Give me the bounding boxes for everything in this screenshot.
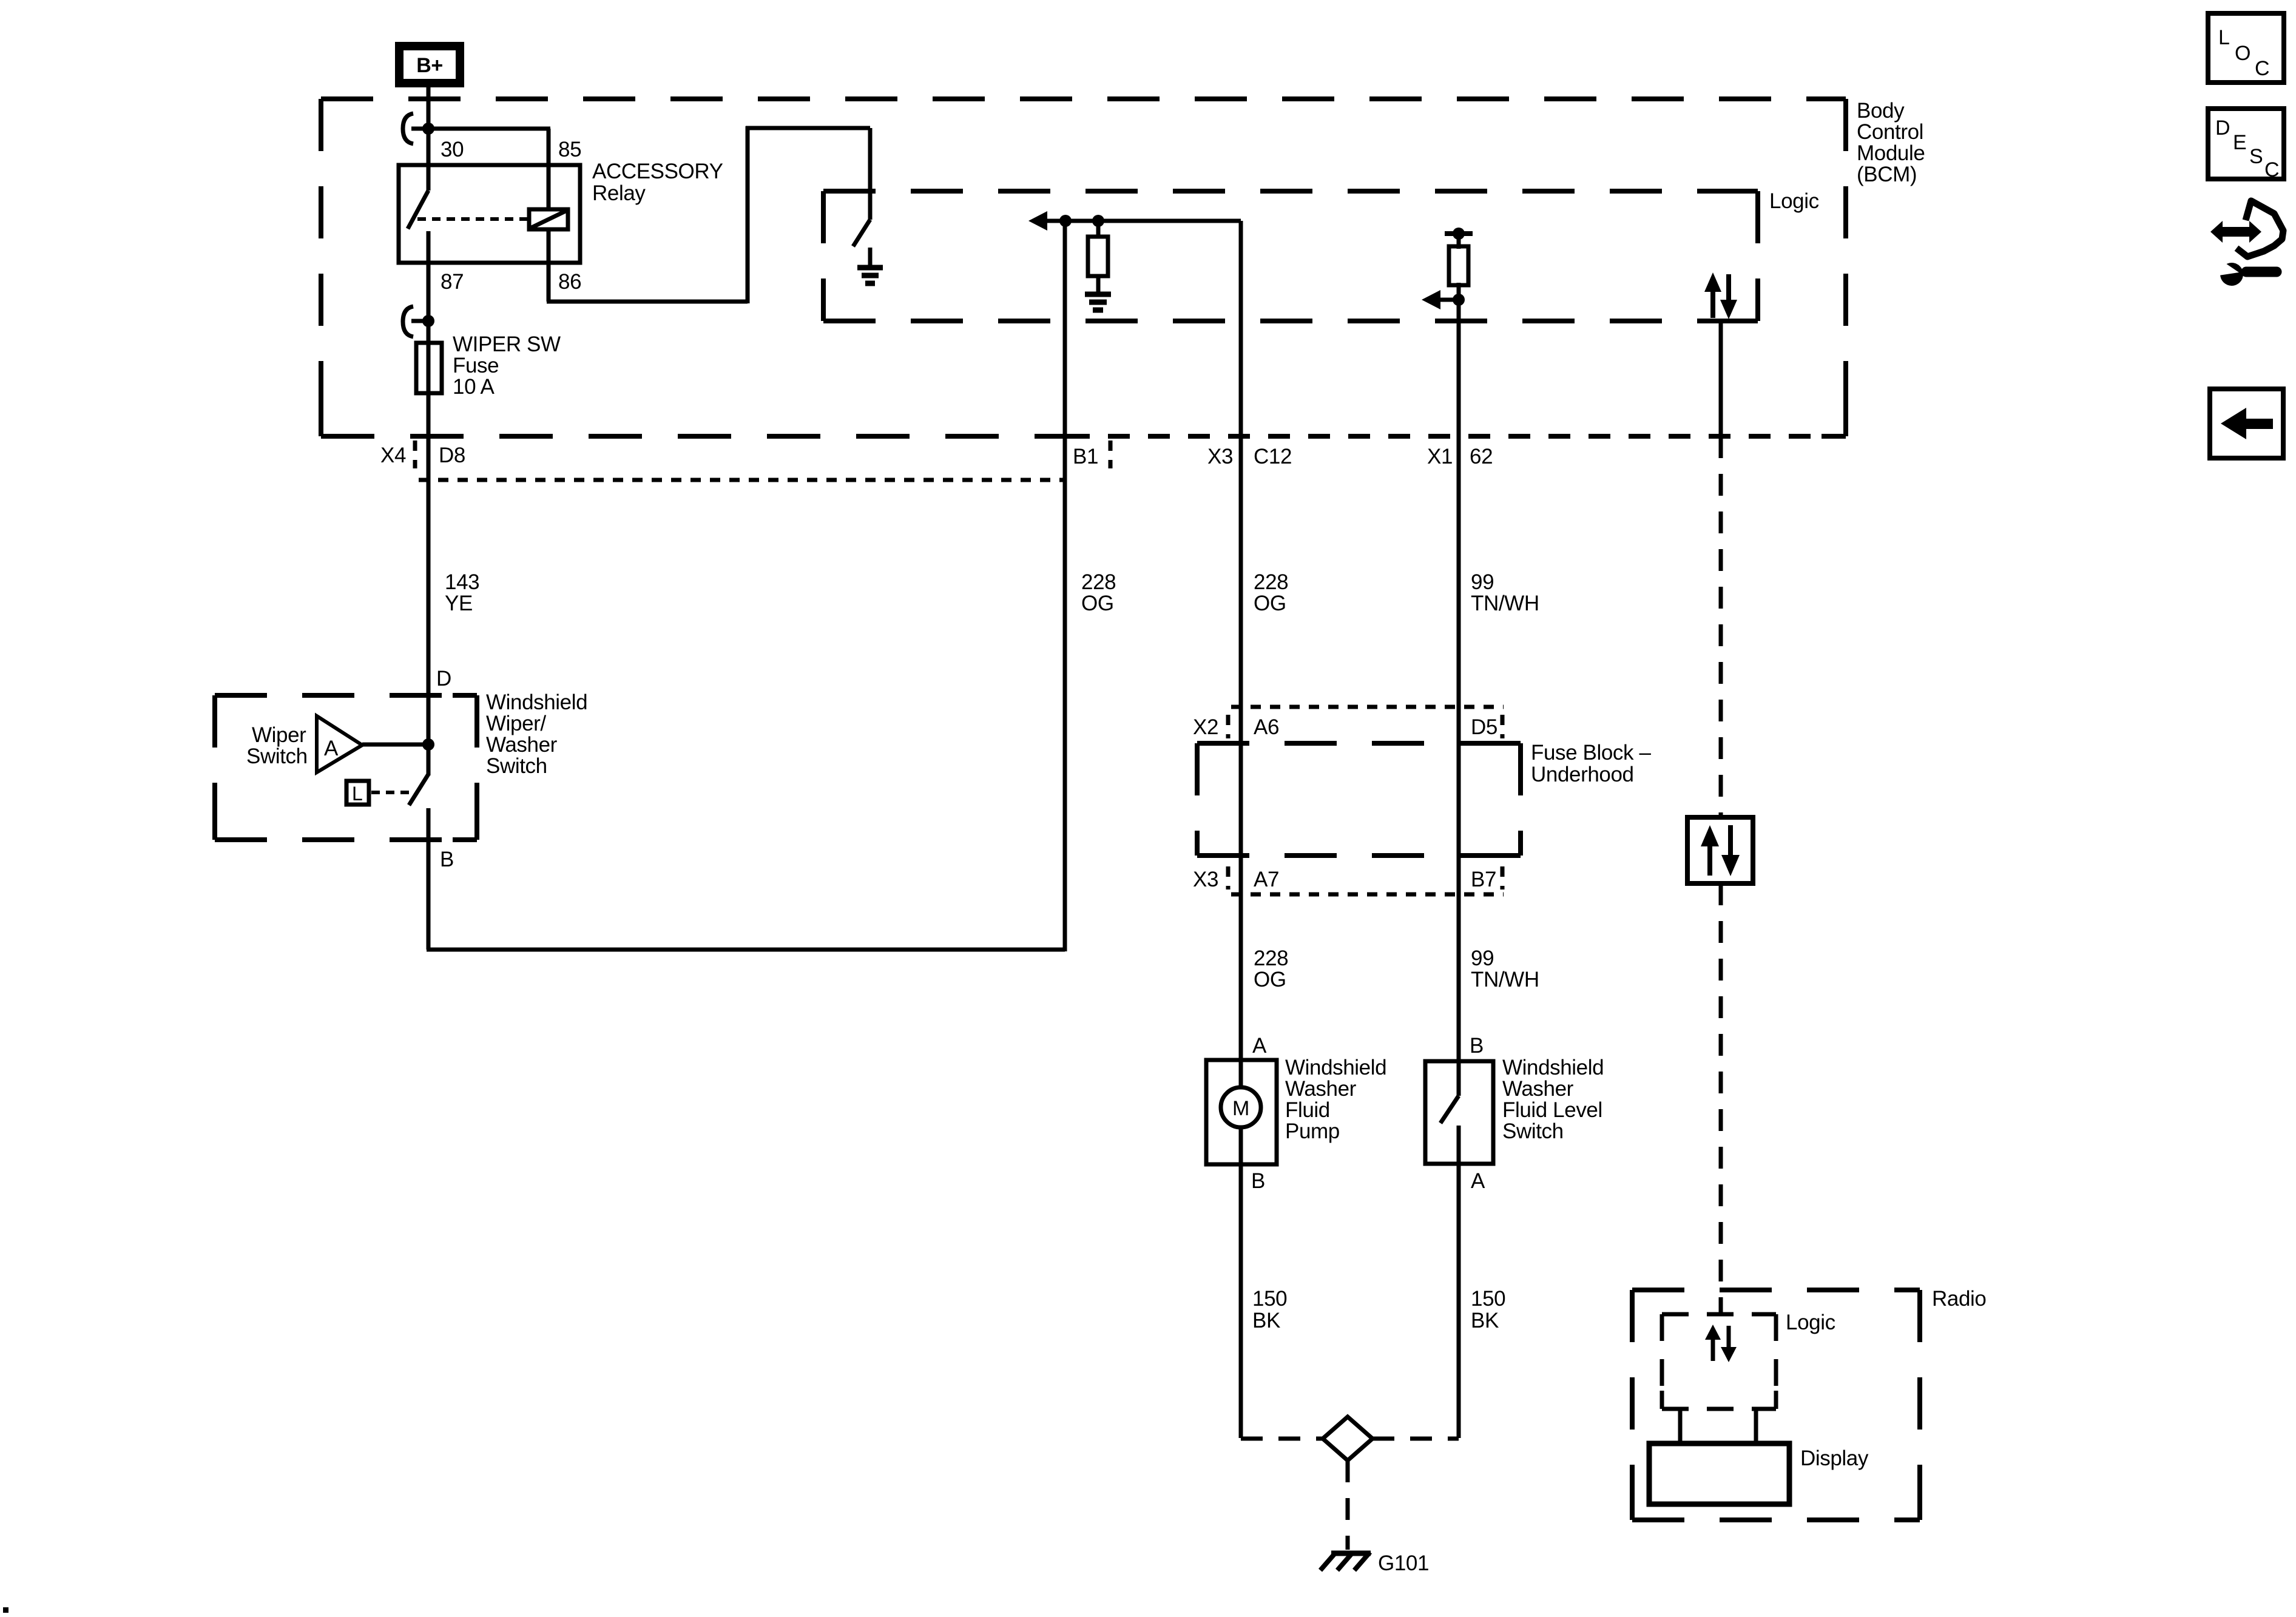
svg-text:143: 143	[445, 570, 479, 594]
svg-text:150: 150	[1252, 1287, 1287, 1311]
svg-text:Washer: Washer	[486, 733, 558, 757]
svg-text:C: C	[2255, 57, 2269, 80]
svg-text:Logic: Logic	[1769, 189, 1819, 213]
svg-text:C12: C12	[1254, 445, 1292, 468]
svg-text:Pump: Pump	[1285, 1119, 1340, 1143]
svg-text:X3: X3	[1207, 445, 1233, 468]
svg-text:BK: BK	[1471, 1309, 1499, 1332]
svg-text:Control: Control	[1857, 120, 1923, 144]
svg-text:B+: B+	[416, 54, 443, 77]
svg-text:228: 228	[1254, 947, 1288, 970]
svg-text:Switch: Switch	[1502, 1119, 1564, 1143]
svg-text:A: A	[1252, 1034, 1267, 1058]
svg-text:A: A	[324, 737, 339, 760]
svg-text:TN/WH: TN/WH	[1471, 592, 1539, 615]
svg-text:85: 85	[558, 138, 581, 161]
svg-text:A: A	[1471, 1169, 1485, 1193]
svg-text:Fuse Block –: Fuse Block –	[1531, 741, 1651, 765]
svg-text:Logic: Logic	[1786, 1311, 1835, 1334]
svg-text:ACCESSORY: ACCESSORY	[592, 160, 723, 183]
svg-text:Module: Module	[1857, 141, 1925, 165]
svg-text:228: 228	[1254, 570, 1288, 594]
svg-text:B: B	[1470, 1034, 1484, 1058]
svg-text:B7: B7	[1471, 868, 1496, 891]
svg-text:D5: D5	[1471, 715, 1497, 739]
svg-text:150: 150	[1471, 1287, 1505, 1311]
svg-text:O: O	[2235, 42, 2250, 65]
svg-text:D: D	[436, 667, 451, 690]
svg-text:S: S	[2249, 145, 2263, 168]
svg-text:Radio: Radio	[1932, 1287, 1986, 1311]
svg-text:OG: OG	[1254, 592, 1286, 615]
svg-text:Display: Display	[1800, 1447, 1869, 1470]
svg-text:L: L	[2218, 26, 2230, 49]
svg-text:228: 228	[1081, 570, 1116, 594]
svg-text:X2: X2	[1193, 715, 1218, 739]
svg-text:D: D	[2215, 116, 2230, 140]
svg-text:B: B	[1251, 1169, 1265, 1193]
svg-text:TN/WH: TN/WH	[1471, 968, 1539, 991]
svg-text:Fuse: Fuse	[453, 354, 499, 377]
svg-text:Windshield: Windshield	[1285, 1056, 1386, 1079]
svg-text:Relay: Relay	[592, 181, 646, 205]
svg-text:Washer: Washer	[1502, 1077, 1574, 1101]
svg-text:OG: OG	[1081, 592, 1114, 615]
svg-text:Windshield: Windshield	[486, 690, 587, 714]
svg-text:E: E	[2233, 131, 2246, 154]
svg-text:Wiper/: Wiper/	[486, 712, 546, 735]
svg-text:M: M	[1232, 1097, 1249, 1120]
svg-text:D8: D8	[439, 444, 465, 467]
svg-text:X3: X3	[1193, 868, 1218, 891]
svg-text:YE: YE	[445, 592, 473, 615]
svg-text:Washer: Washer	[1285, 1077, 1357, 1101]
svg-text:Fluid: Fluid	[1285, 1098, 1330, 1122]
svg-text:BK: BK	[1252, 1309, 1280, 1332]
svg-text:X1: X1	[1427, 445, 1453, 468]
svg-text:C: C	[2264, 158, 2279, 181]
svg-text:B1: B1	[1073, 445, 1098, 468]
svg-text:X4: X4	[380, 444, 406, 467]
svg-text:A6: A6	[1254, 715, 1279, 739]
svg-text:10 A: 10 A	[453, 375, 495, 399]
svg-text:G101: G101	[1378, 1551, 1429, 1575]
svg-text:Underhood: Underhood	[1531, 763, 1634, 786]
svg-text:B: B	[440, 848, 454, 871]
svg-text:Windshield: Windshield	[1502, 1056, 1604, 1079]
svg-text:A7: A7	[1254, 868, 1279, 891]
svg-text:62: 62	[1470, 445, 1493, 468]
svg-text:99: 99	[1471, 570, 1494, 594]
svg-text:86: 86	[558, 270, 581, 294]
svg-text:30: 30	[441, 138, 464, 161]
svg-text:99: 99	[1471, 947, 1494, 970]
svg-text:Body: Body	[1857, 99, 1905, 123]
svg-text:OG: OG	[1254, 968, 1286, 991]
svg-text:Wiper: Wiper	[252, 723, 306, 747]
svg-text:Switch: Switch	[486, 754, 547, 778]
svg-text:WIPER SW: WIPER SW	[453, 333, 561, 356]
svg-text:Fluid Level: Fluid Level	[1502, 1098, 1602, 1122]
svg-text:87: 87	[441, 270, 464, 294]
svg-text:(BCM): (BCM)	[1857, 163, 1917, 186]
svg-text:L: L	[352, 783, 362, 805]
svg-text:Switch: Switch	[246, 744, 308, 768]
